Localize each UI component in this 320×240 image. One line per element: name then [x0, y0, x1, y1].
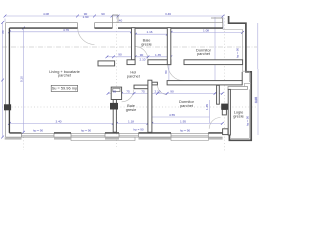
svg-text:parchet: parchet	[180, 103, 194, 108]
svg-text:2.10: 2.10	[139, 58, 145, 62]
svg-text:1.95: 1.95	[180, 119, 186, 123]
svg-text:4.08: 4.08	[43, 12, 49, 16]
svg-text:1.08: 1.08	[203, 29, 209, 33]
svg-text:85: 85	[113, 89, 117, 93]
svg-text:hp = 90: hp = 90	[81, 128, 91, 132]
svg-text:gresie: gresie	[233, 113, 244, 118]
svg-text:2.10: 2.10	[154, 89, 160, 93]
svg-text:parchet: parchet	[197, 51, 211, 56]
svg-text:gresie: gresie	[126, 107, 137, 112]
svg-text:75: 75	[126, 89, 130, 93]
svg-text:90: 90	[118, 53, 122, 57]
svg-text:3.40: 3.40	[55, 119, 61, 123]
svg-text:hp = 90: hp = 90	[33, 129, 43, 133]
svg-text:hp = 90: hp = 90	[235, 48, 239, 58]
svg-text:90: 90	[170, 89, 174, 93]
svg-text:75: 75	[141, 89, 145, 93]
svg-text:4.55: 4.55	[169, 113, 175, 117]
svg-text:90: 90	[140, 53, 144, 57]
svg-text:gresie: gresie	[141, 41, 152, 46]
svg-text:3.46: 3.46	[165, 12, 171, 16]
svg-text:3.95: 3.95	[254, 97, 258, 103]
svg-text:1.16: 1.16	[146, 30, 152, 34]
svg-text:1.18: 1.18	[128, 119, 134, 123]
svg-text:20: 20	[1, 30, 5, 34]
svg-text:1.35: 1.35	[205, 104, 209, 110]
svg-text:parchet: parchet	[127, 73, 141, 78]
svg-text:5.10: 5.10	[19, 76, 23, 82]
svg-text:Su = 59.96 mp: Su = 59.96 mp	[52, 86, 77, 91]
svg-text:hp = 90: hp = 90	[133, 128, 143, 132]
svg-text:hp = 90: hp = 90	[180, 128, 190, 132]
svg-text:parchet: parchet	[58, 73, 72, 78]
svg-text:80: 80	[164, 70, 168, 74]
svg-text:90: 90	[101, 12, 105, 16]
svg-text:40: 40	[119, 18, 123, 22]
svg-text:1.90: 1.90	[82, 15, 88, 19]
svg-text:1.35: 1.35	[155, 53, 161, 57]
svg-text:4.76: 4.76	[63, 28, 69, 32]
svg-text:hp = 90: hp = 90	[245, 116, 249, 126]
